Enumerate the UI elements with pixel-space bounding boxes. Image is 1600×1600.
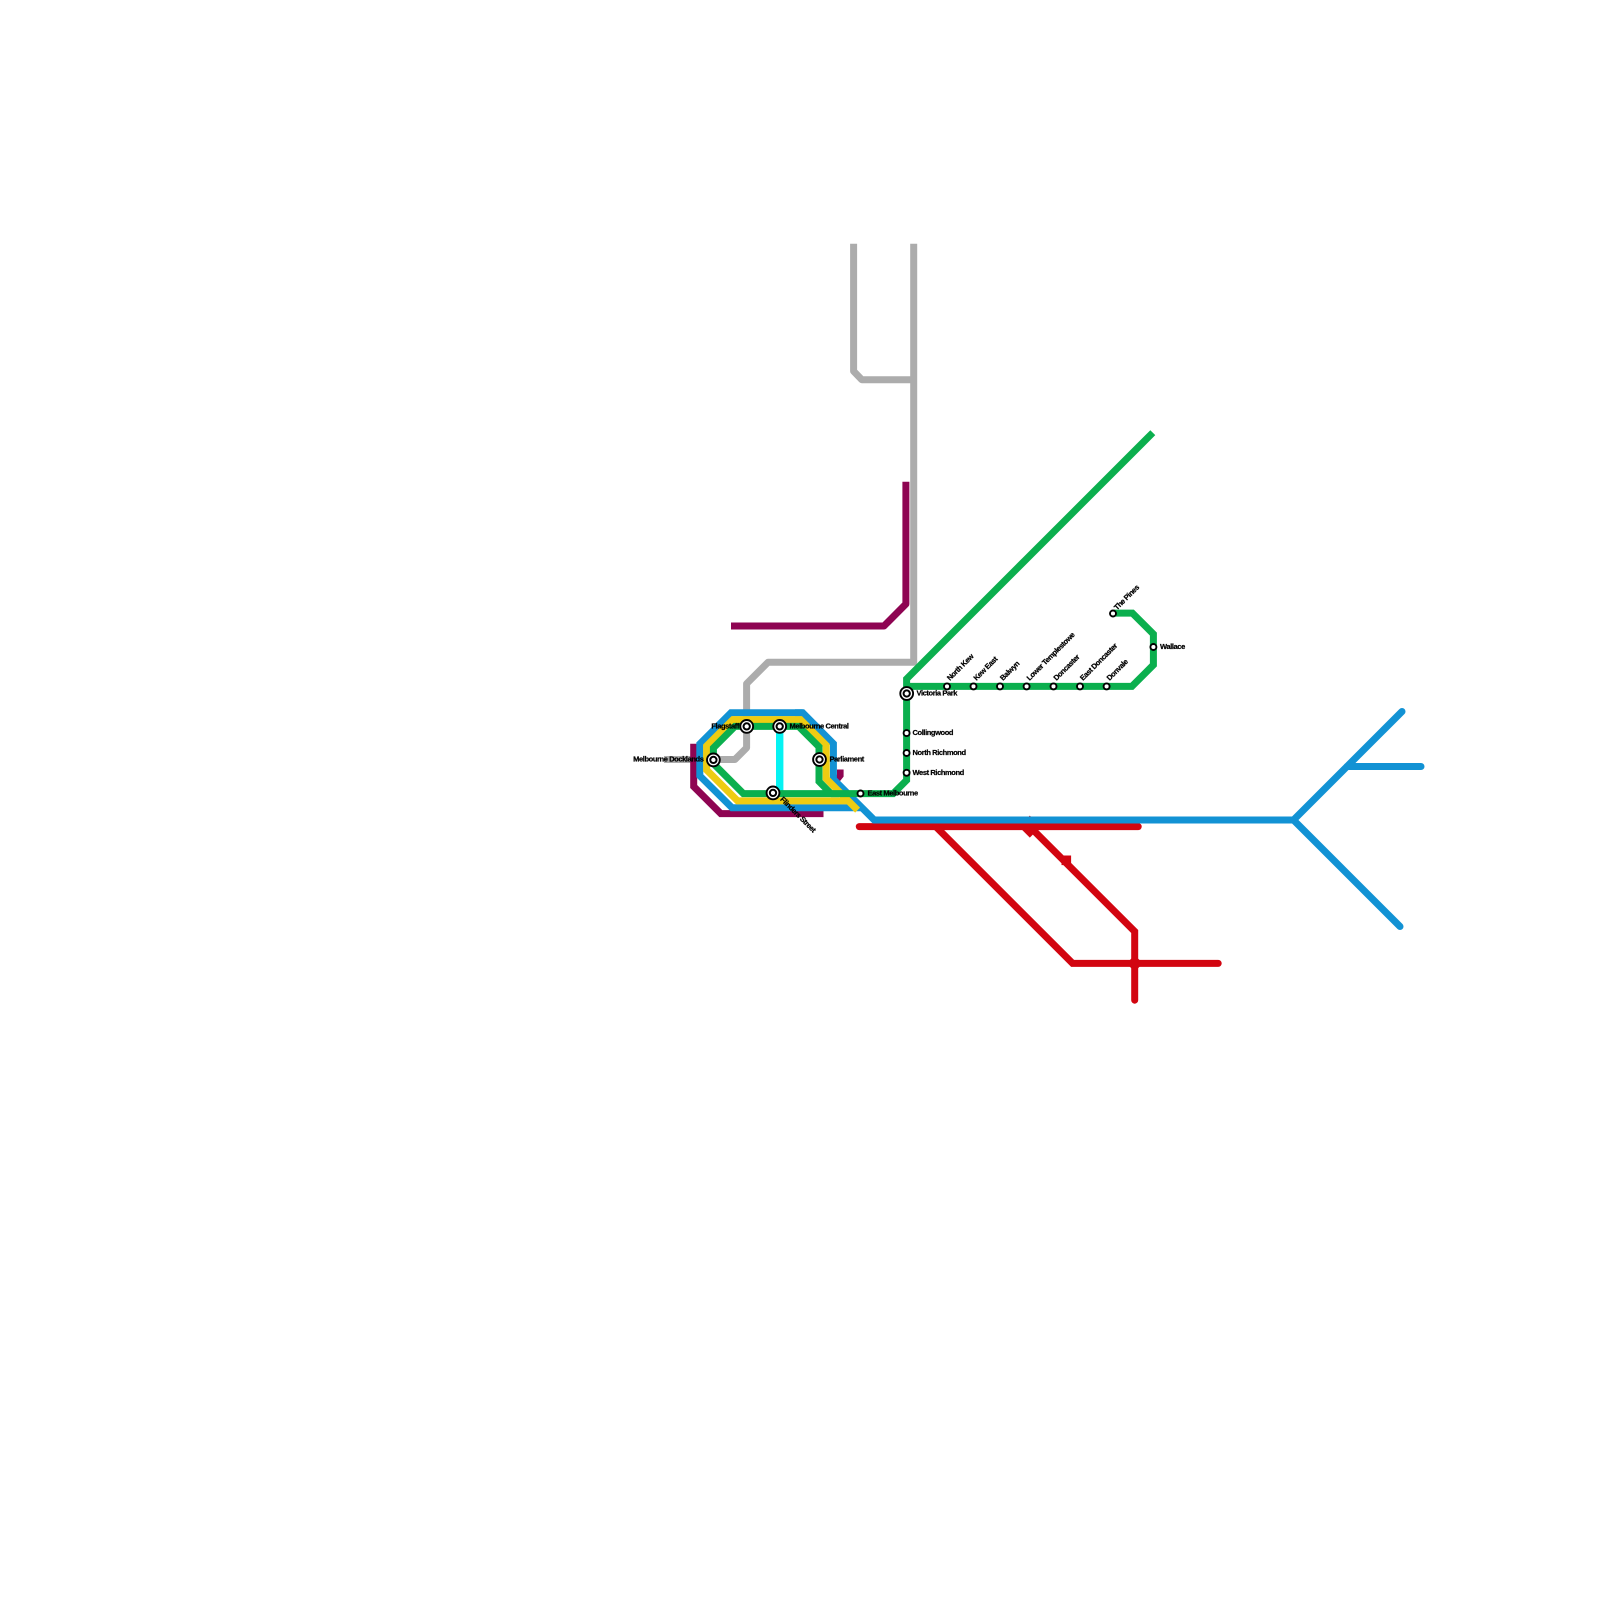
- purple line loop west-south segment: [694, 744, 824, 814]
- station Kew East: [971, 683, 977, 689]
- interchange station Parliament: [812, 752, 827, 767]
- svg-text:Flagstaff: Flagstaff: [711, 721, 740, 730]
- label Balwyn: [998, 659, 1022, 683]
- red diamond marker at crossing: [1127, 955, 1143, 971]
- label Flinders Street: [778, 795, 818, 835]
- blue upper fork diagonal: [1294, 712, 1403, 821]
- station North Kew: [944, 683, 950, 689]
- station East Doncaster: [1077, 683, 1083, 689]
- svg-text:Parliament: Parliament: [830, 754, 865, 763]
- svg-text:Melbourne Central: Melbourne Central: [790, 721, 849, 730]
- purple stub near Parliament: [837, 770, 840, 780]
- label East Doncaster: [1078, 641, 1119, 682]
- label Donvale: [1105, 657, 1130, 682]
- label Lower Templestowe: [1025, 630, 1077, 682]
- label Melbourne Central: [790, 721, 849, 730]
- red line first diagonal and bottom horizontal: [936, 827, 1218, 964]
- station Collingwood: [904, 730, 910, 736]
- svg-text:North Richmond: North Richmond: [913, 748, 967, 757]
- label Flagstaff: [711, 721, 740, 730]
- purple line north segment: [731, 482, 906, 626]
- green line east tail to Victoria Park and long diagonal: [831, 433, 1153, 794]
- label Doncaster: [1052, 652, 1082, 682]
- label Kew East: [972, 654, 1000, 682]
- blue line city loop ring: [700, 713, 862, 808]
- svg-text:Melbourne Docklands: Melbourne Docklands: [633, 755, 704, 764]
- red line top horizontal: [859, 823, 1138, 830]
- label Melbourne Docklands: [633, 755, 704, 764]
- label North Kew: [945, 652, 976, 683]
- svg-text:West Richmond: West Richmond: [913, 768, 965, 777]
- red line second diagonal and vertical: [1030, 827, 1135, 1001]
- blue line Parliament leg and eastern trunk: [795, 713, 1294, 820]
- green line Doncaster branch with hook: [910, 613, 1153, 686]
- interchange station Flinders Street: [766, 786, 781, 801]
- station Balwyn: [997, 683, 1003, 689]
- label Parliament: [830, 754, 865, 763]
- cyan line (Melbourne Central to Flinders Street): [776, 728, 783, 791]
- red diamond marker at branch start: [1019, 816, 1041, 838]
- gray line main (north fork right vertical to Melbourne Docklands): [664, 244, 914, 760]
- station North Richmond: [904, 750, 910, 756]
- green line city loop ring: [713, 726, 831, 793]
- station Lower Templestowe: [1024, 683, 1030, 689]
- label Collingwood: [913, 728, 954, 737]
- svg-text:East Melbourne: East Melbourne: [868, 788, 918, 797]
- label The Pines: [1112, 583, 1141, 612]
- interchange station Melbourne Docklands: [706, 753, 721, 768]
- station West Richmond: [904, 770, 910, 776]
- station Wallace: [1150, 644, 1156, 650]
- label North Richmond: [913, 748, 967, 757]
- svg-text:Victoria Park: Victoria Park: [917, 688, 959, 697]
- station Donvale: [1104, 683, 1110, 689]
- yellow line city loop: [707, 720, 858, 811]
- blue lower fork diagonal: [1294, 820, 1401, 927]
- blue middle fork horizontal: [1347, 763, 1421, 770]
- gray line north fork left branch: [854, 244, 914, 380]
- label Victoria Park: [917, 688, 959, 697]
- interchange station Flagstaff: [739, 719, 754, 734]
- svg-text:Collingwood: Collingwood: [913, 728, 954, 737]
- red square marker on diagonal: [1062, 856, 1072, 866]
- svg-text:Wallace: Wallace: [1160, 642, 1185, 651]
- label West Richmond: [913, 768, 965, 777]
- station Doncaster: [1051, 683, 1057, 689]
- label Wallace: [1160, 642, 1185, 651]
- station East Melbourne: [858, 791, 864, 797]
- station The Pines: [1110, 611, 1116, 617]
- interchange station Melbourne Central: [772, 719, 787, 734]
- interchange station Victoria Park: [899, 686, 914, 701]
- label East Melbourne: [868, 788, 918, 797]
